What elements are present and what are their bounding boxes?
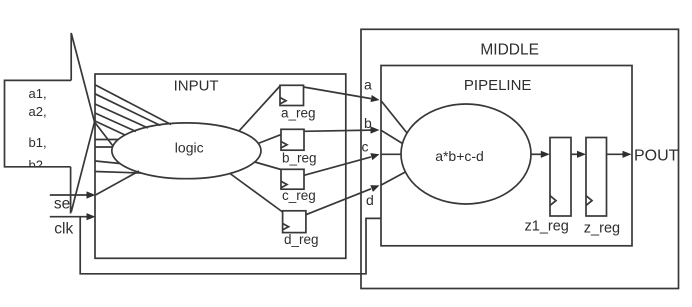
module INPUT box (95, 74, 346, 258)
svg-text:POUT: POUT (634, 148, 679, 165)
svg-text:a*b+c-d: a*b+c-d (435, 148, 484, 164)
svg-text:a_reg: a_reg (281, 106, 316, 121)
arrowhead se (87, 191, 96, 198)
svg-text:z_reg: z_reg (584, 220, 620, 236)
wire b into pipeline ellipse (381, 130, 403, 144)
arrowhead z1_reg input (541, 151, 550, 158)
svg-text:INPUT: INPUT (174, 78, 219, 95)
arrowhead a (371, 95, 381, 104)
wire fan line 8 (96, 146, 113, 148)
svg-text:z1_reg: z1_reg (525, 219, 569, 235)
arrowhead c (370, 151, 380, 160)
logic ellipse (112, 123, 261, 179)
arrowhead POUT (623, 151, 632, 158)
module MIDDLE box (361, 29, 679, 288)
svg-text:clk: clk (54, 220, 73, 237)
funnel triangle (71, 33, 95, 214)
wire b_reg to pipeline b (304, 130, 371, 131)
wire pipeline ellipse to z1_reg (531, 153, 541, 155)
wire se (50, 194, 87, 196)
svg-text:b1,: b1, (29, 135, 47, 150)
svg-text:b_reg: b_reg (282, 151, 317, 166)
wire z_reg to POUT (607, 153, 624, 155)
register b_reg box (281, 129, 304, 150)
wire clk routing to MIDDLE (80, 217, 381, 274)
arrowhead d (370, 182, 381, 192)
wire se internal (96, 171, 140, 195)
register z1_reg clock chevron (550, 196, 556, 206)
wire c_reg to pipeline c (304, 157, 371, 175)
input signal bundle box (a1,a2,b1,b2) (5, 80, 72, 166)
register d_reg box (283, 211, 306, 233)
wire a_reg to pipeline a (304, 87, 372, 99)
wire logic to a_reg (239, 86, 280, 131)
wire fan line 7 (96, 139, 119, 141)
wire a into pipeline ellipse (381, 100, 408, 133)
register a_reg clock chevron (280, 98, 286, 104)
wire clk (50, 216, 87, 218)
register c_reg box (281, 169, 304, 189)
register a_reg box (280, 85, 304, 105)
svg-text:c: c (362, 138, 369, 154)
register z1_reg box (550, 138, 571, 217)
arrowhead z_reg input (577, 151, 586, 158)
wire d_reg to pipeline d (306, 189, 371, 215)
register b_reg clock chevron (281, 142, 287, 148)
wire logic to c_reg (255, 162, 281, 170)
svg-text:MIDDLE: MIDDLE (480, 42, 539, 59)
wire fan line 3 (95, 104, 148, 128)
wire fan line 2 (95, 94, 161, 126)
register d_reg clock chevron (283, 224, 289, 230)
svg-text:a: a (364, 76, 372, 92)
arrowhead clk (87, 213, 96, 220)
svg-text:se: se (54, 195, 70, 212)
wire c into pipeline ellipse (381, 153, 402, 155)
register z_reg clock chevron (586, 196, 592, 206)
svg-text:logic: logic (175, 140, 204, 156)
register z_reg box (586, 138, 607, 217)
svg-text:a2,: a2, (29, 104, 47, 119)
svg-text:c_reg: c_reg (282, 188, 316, 203)
svg-text:b: b (364, 115, 372, 131)
pipeline ellipse a*b+c-d (401, 104, 531, 204)
svg-text:d_reg: d_reg (284, 232, 319, 247)
wire fan line 1 (95, 85, 171, 125)
wire fan line 4 (95, 113, 136, 132)
svg-text:PIPELINE: PIPELINE (464, 77, 532, 94)
wire fan line 6 (95, 122, 114, 146)
wire fan line 5 (95, 121, 125, 135)
svg-text:d: d (366, 192, 374, 208)
wire fan line 9 (96, 161, 121, 164)
wire z1_reg to z_reg (571, 153, 578, 155)
wire logic to b_reg (258, 135, 281, 144)
module PIPELINE box (381, 66, 632, 246)
arrowhead b (371, 126, 380, 133)
svg-text:b2: b2 (29, 158, 43, 173)
svg-text:a1,: a1, (29, 86, 47, 101)
wire logic to d_reg (230, 174, 283, 213)
wire d into pipeline ellipse (381, 172, 406, 185)
register c_reg clock chevron (281, 181, 287, 187)
wire fan line 10 (96, 172, 142, 174)
